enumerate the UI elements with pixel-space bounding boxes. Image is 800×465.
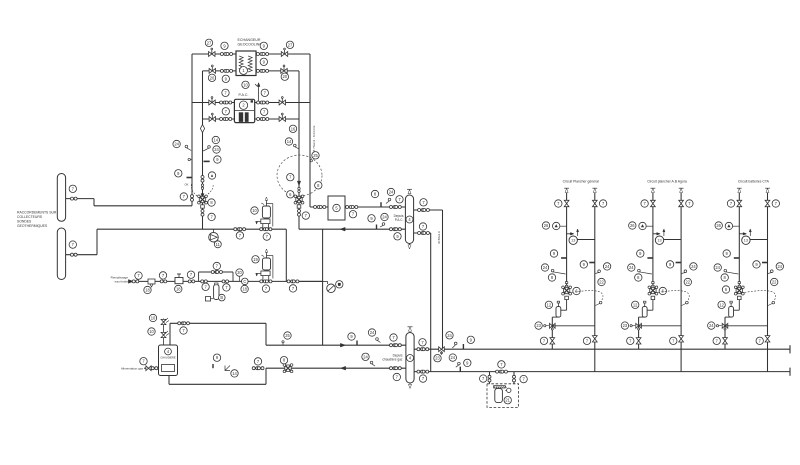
- wire bottle1 right supply: [414, 210, 443, 349]
- circuit 1 flanges 3way: [565, 282, 567, 287]
- label 20 bot right: [281, 73, 288, 80]
- three way valve right V2: [294, 195, 304, 204]
- circuit 2 supply pipe: [652, 193, 654, 288]
- label 18 filter: [144, 286, 151, 293]
- svg-text:22: 22: [772, 279, 777, 284]
- circuit 3 purger: [725, 222, 739, 229]
- label 19 lower vase: [252, 256, 259, 263]
- label 25 right riser: [310, 152, 319, 162]
- circuit 1 supply valve: [564, 200, 569, 206]
- valve outer riser: [191, 195, 194, 202]
- arrow into right 3way: [297, 181, 300, 192]
- bottle1 bottom arrow: [408, 244, 411, 249]
- circuit 1 purger: [553, 222, 567, 229]
- valve bypass top: [211, 271, 222, 274]
- vase upper manifold: [256, 219, 270, 229]
- stem valve PAC top right: [279, 97, 285, 105]
- union valve treatment main: [496, 370, 508, 373]
- circuit 2 return valve: [679, 200, 684, 206]
- circuit 3 label 12: [718, 301, 725, 308]
- label 24 pac supply: [386, 188, 395, 203]
- circuit 1 label 24 supply: [541, 264, 565, 274]
- svg-text:12: 12: [633, 302, 638, 307]
- circuit 1 label 7 supply: [555, 200, 562, 207]
- wire left inner riser x202: [202, 71, 204, 229]
- union valve fill 5: [222, 280, 229, 283]
- circuit 1 label 9 return: [580, 261, 587, 268]
- svg-text:24: 24: [447, 333, 452, 338]
- circuit 3 label 26: [715, 222, 722, 229]
- stem valve PAC bot left: [209, 113, 215, 121]
- circuit 3 balance valve: [722, 323, 728, 330]
- circuit 1 label 22: [598, 278, 605, 285]
- collector probe upper: [57, 174, 65, 222]
- svg-text:RACCORDEMENTS SUR: RACCORDEMENTS SUR: [17, 211, 57, 215]
- svg-text:24: 24: [778, 264, 783, 269]
- wire return main: [97, 229, 286, 281]
- circuit 2 label 12: [632, 301, 639, 308]
- air vent line: [255, 83, 260, 103]
- label 7 bottle2 supply: [390, 334, 397, 341]
- svg-text:23: 23: [435, 356, 440, 361]
- circuit 1 label 6: [573, 287, 580, 294]
- echangeur geocooling E1: [236, 51, 256, 76]
- vase lower bypass: [267, 256, 273, 279]
- circuit 1 supply arrow: [564, 188, 569, 192]
- svg-text:Circuit batteries CTA: Circuit batteries CTA: [738, 179, 770, 183]
- svg-text:CHAUDIERE: CHAUDIERE: [160, 355, 176, 359]
- label 7 right 3way: [287, 174, 294, 181]
- svg-text:Ø 80x2.9: Ø 80x2.9: [437, 231, 441, 244]
- vase upper: [261, 197, 270, 218]
- label 21 treatment: [504, 397, 511, 404]
- circuit 2 temp bar supply: [647, 257, 653, 259]
- circuit 3 label 9 supply: [723, 250, 730, 257]
- union valve fill 4: [201, 280, 208, 283]
- circuit 3 flanges 3way: [738, 282, 740, 287]
- label 10 upper vase: [251, 207, 258, 214]
- bottle2 top arrow: [408, 327, 413, 331]
- circuit 2 pump 13: [655, 229, 665, 244]
- label 9 bottle1 return: [394, 233, 401, 240]
- circuit 1 label 9 supply: [550, 250, 557, 257]
- svg-text:10: 10: [252, 208, 257, 213]
- balance valve upper main: [439, 347, 445, 354]
- circuit 3 label 6: [722, 286, 729, 293]
- safety valve 1: [149, 314, 169, 324]
- label 8 left 3way: [208, 199, 215, 206]
- label 8 right 3way: [315, 182, 322, 189]
- circuit 1 label 7 low return: [583, 337, 590, 344]
- circuit 2 crossover low: [639, 325, 682, 327]
- svg-text:10: 10: [149, 329, 154, 334]
- label 14 boiler return: [231, 370, 238, 377]
- svg-text:22: 22: [686, 279, 691, 284]
- label 7 bottle1 rs: [420, 199, 427, 206]
- circuit 1 pot 12: [556, 301, 561, 317]
- svg-text:26: 26: [716, 223, 721, 228]
- label 24 return pac: [380, 213, 388, 227]
- union valve bottle1 supply: [390, 206, 402, 209]
- circuit 3 label 22: [771, 278, 778, 285]
- stem valve HX bot left: [209, 65, 215, 73]
- vent label left riser: [208, 172, 215, 179]
- svg-text:GEOCOOLING: GEOCOOLING: [238, 43, 263, 47]
- vase lower: [261, 249, 270, 270]
- label 6 right 3way: [287, 191, 294, 198]
- svg-text:18: 18: [176, 286, 181, 291]
- svg-text:24: 24: [605, 264, 610, 269]
- circuit 1 three way valve: [562, 286, 572, 295]
- svg-text:19: 19: [253, 257, 258, 262]
- check valve boiler return: [225, 366, 230, 371]
- circuit 2 bottom vertical: [639, 317, 645, 349]
- circuit 3 temp bar supply: [734, 257, 740, 259]
- circuit 1 label 8: [548, 274, 555, 281]
- svg-text:ECHANGEUR: ECHANGEUR: [238, 38, 261, 42]
- wire treatment drops: [490, 372, 515, 384]
- circuit 3 return pipe: [767, 193, 769, 372]
- svg-text:20: 20: [283, 74, 288, 79]
- label 7 gas: [140, 358, 147, 365]
- circuit 2 flanges 3way: [652, 282, 654, 287]
- circuit 3 three way valve: [734, 286, 744, 295]
- circuit 2 pot 12: [642, 301, 647, 317]
- label 8 gauge: [336, 281, 343, 288]
- union valve bottle2 supply: [390, 344, 402, 347]
- circuit 2 crossover: [653, 233, 681, 240]
- union valves box5 right: [346, 206, 358, 209]
- circuit 1 title: [563, 179, 599, 183]
- svg-text:14: 14: [287, 139, 292, 144]
- union valve above 3way left: [201, 176, 204, 183]
- arrow boiler return: [341, 366, 346, 370]
- bottle2 bottom arrow: [408, 383, 411, 388]
- circuit 2 temp bar return: [676, 262, 682, 264]
- union valves PAC bot right: [257, 118, 269, 121]
- union valves HX bot right: [256, 69, 268, 72]
- circuit 1 return arrow: [592, 188, 597, 192]
- circuit 2 three way valve: [648, 286, 658, 295]
- label 24 lower main: [449, 354, 460, 367]
- label 7 below left 3way: [208, 213, 215, 220]
- label 9 lower main: [464, 359, 471, 366]
- svg-text:10: 10: [151, 315, 156, 320]
- union valve bottle1 return: [390, 228, 402, 231]
- label 24 boiler return: [362, 353, 375, 366]
- circuit 3 supply valve: [737, 200, 742, 206]
- label 7 treatment right: [520, 375, 527, 382]
- circuit 1 dashed control: [572, 291, 603, 306]
- circuit 2 label 23: [621, 322, 635, 329]
- circuit 2 label 8: [635, 274, 642, 281]
- svg-text:21: 21: [505, 398, 510, 403]
- union valve boiler return: [252, 367, 264, 370]
- wire HX top pipe: [192, 53, 310, 55]
- union below right 3way: [298, 210, 301, 217]
- label 7 bottle1 left: [396, 196, 403, 203]
- wire lower distribution main: [414, 368, 790, 376]
- valve lower collector: [71, 253, 78, 256]
- circuit 3 crossover: [739, 233, 767, 240]
- label 7 fill 5: [223, 284, 230, 291]
- svg-text:SONDES: SONDES: [17, 220, 32, 224]
- svg-text:14: 14: [214, 137, 219, 142]
- svg-text:24: 24: [389, 189, 394, 194]
- svg-text:Circuit plancher A.B Agora: Circuit plancher A.B Agora: [647, 179, 687, 183]
- circuit 1 drop pipe: [561, 300, 567, 311]
- union valve fill 3: [188, 280, 195, 283]
- label 16 right riser: [289, 125, 296, 132]
- circuit 3 label 7 supply: [727, 200, 734, 207]
- circuit 1 actuator: [565, 296, 569, 299]
- valve upper collector: [71, 197, 78, 200]
- circuit 2 label 24 return: [682, 263, 698, 274]
- circuit 3 dashed control: [744, 291, 775, 306]
- label 18 reducer: [175, 285, 182, 292]
- dashed link left 3way: [184, 183, 213, 196]
- svg-text:OK: OK: [184, 183, 188, 187]
- circuit 2 supply arrow: [651, 188, 656, 192]
- union valve bottle2 return: [390, 367, 402, 370]
- union valve upper main: [417, 348, 429, 351]
- stem valve HX top right: [281, 48, 287, 56]
- circuit 1 supply pipe: [566, 193, 568, 288]
- svg-text:18: 18: [242, 286, 247, 291]
- union valve lower main: [417, 370, 429, 373]
- label 7 fill 4: [202, 283, 209, 290]
- label 7 box5 right: [349, 211, 356, 218]
- label 9 boiler supply: [348, 333, 355, 340]
- label 24 left riser: [213, 146, 220, 153]
- circuit 1 label 26: [542, 222, 549, 229]
- pipe size text risers: [437, 231, 441, 244]
- circuit 1 return valve low: [592, 336, 597, 342]
- circuit 3 crossover low: [725, 325, 768, 327]
- label 9 HX top left: [221, 42, 228, 49]
- collector probe lower: [57, 228, 65, 280]
- label 23 upper main: [434, 351, 442, 362]
- svg-text:P.A.C.: P.A.C.: [395, 218, 404, 222]
- echangeur label: [238, 38, 263, 47]
- circuit 2 supply valve low: [636, 338, 641, 344]
- gauge fill end: [323, 281, 336, 292]
- circuit 3 supply valve low: [723, 338, 728, 344]
- union valves HX bot left: [220, 69, 232, 72]
- temp bar boiler return: [212, 364, 214, 368]
- svg-text:11: 11: [216, 242, 221, 247]
- label 24 outer riser: [173, 140, 191, 150]
- label 7 bypass: [213, 262, 220, 269]
- appareil 5: [328, 196, 345, 220]
- circuit 2 drop pipe: [647, 300, 653, 311]
- circuit 1 crossover low: [552, 325, 595, 327]
- wire right inner riser x299: [298, 71, 300, 229]
- svg-text:16: 16: [291, 126, 296, 131]
- svg-text:24: 24: [629, 265, 634, 270]
- wire right outer riser x310: [310, 54, 328, 207]
- circuit 2 dashed control: [658, 291, 689, 306]
- svg-text:10: 10: [243, 82, 248, 87]
- svg-text:24: 24: [363, 354, 368, 359]
- temp bar outer riser: [175, 170, 192, 178]
- circuit 2 label 6: [659, 287, 666, 294]
- circuit 3 actuator: [738, 296, 742, 299]
- union valves HX top right: [256, 53, 268, 56]
- wire PAC top pipe: [192, 102, 310, 104]
- label 7 PAC left: [222, 108, 229, 115]
- pressure reducer fill: [175, 274, 183, 284]
- circuit 1 return valve: [592, 200, 597, 206]
- svg-text:26: 26: [544, 223, 549, 228]
- temp bar lower main: [459, 367, 461, 372]
- circuit 3 label 24 return: [768, 263, 784, 274]
- circuit 2 label 7 low return: [670, 337, 677, 344]
- circuit 3 label 8: [721, 274, 728, 281]
- circuit 2 label 7 supply: [641, 200, 648, 207]
- gas supply: [121, 366, 159, 371]
- wire upper collector to network: [66, 199, 192, 206]
- temp bar pac supply: [380, 202, 382, 207]
- drain outer riser: [188, 158, 192, 160]
- svg-text:Ø 76x2.9 - 0.24 m/s: Ø 76x2.9 - 0.24 m/s: [312, 125, 316, 152]
- geothermal collector label: [17, 211, 57, 229]
- wire left outer riser x192: [191, 54, 193, 206]
- circuit 2 return arrow: [679, 188, 684, 192]
- union valve treatment right: [513, 375, 516, 382]
- circuit 3 label 7 low return: [756, 337, 763, 344]
- label 7 outer riser: [180, 193, 187, 200]
- circuit 3 title: [738, 179, 770, 183]
- label 24 boiler supply: [368, 329, 380, 343]
- circuit 3 bottom vertical: [725, 317, 731, 349]
- circuit 3 label 7 low supply: [713, 337, 720, 344]
- union valve treatment left: [488, 375, 491, 382]
- circuit 1 label 24 return: [595, 263, 611, 274]
- pump boiler return P8: [283, 364, 293, 373]
- circuit 3 label 9 return: [753, 261, 760, 268]
- circuit 3 label 7 return: [772, 200, 779, 207]
- circuit 3 pot 12: [729, 301, 734, 317]
- label B softener: [219, 294, 226, 301]
- label 20 bot left: [208, 74, 215, 81]
- label 9 HX mid right: [260, 58, 267, 65]
- label 7 lower collector: [69, 241, 76, 248]
- wire lower collector to return main: [66, 229, 97, 255]
- label 27 top left: [205, 39, 212, 46]
- label 7 upper main: [419, 339, 426, 346]
- separator bottle B1: [405, 195, 413, 244]
- softener cylinder: [206, 283, 220, 301]
- circuit 2 balance valve: [636, 323, 642, 330]
- vase lower manifold: [256, 271, 270, 281]
- circuit 1 return pipe: [594, 193, 596, 372]
- union valves PAC top right: [257, 101, 269, 104]
- svg-text:20: 20: [237, 270, 242, 275]
- circuit 2 label 7 return: [686, 200, 693, 207]
- arrow boiler supply: [340, 343, 345, 347]
- circuit 1 label 7 return: [599, 200, 606, 207]
- svg-text:24: 24: [691, 264, 696, 269]
- wire riser x322: [322, 229, 324, 345]
- label eau froide: [111, 276, 129, 284]
- svg-text:chaudière gaz: chaudière gaz: [382, 358, 402, 362]
- circuit 1 label 7 low supply: [540, 337, 547, 344]
- label 24 upper main: [446, 332, 457, 348]
- svg-text:14: 14: [232, 371, 237, 376]
- separator bottle B2: [406, 333, 414, 384]
- circuit 2 label 26: [629, 222, 636, 229]
- dashed control ellipse right: [277, 155, 322, 196]
- label C fill: [242, 278, 249, 285]
- temp bar upper main: [462, 344, 464, 349]
- actuator left 3way: [201, 205, 205, 208]
- chaudiere box B4: [159, 345, 178, 376]
- circuit 1 balance valve: [550, 323, 556, 330]
- label 27 top right: [286, 41, 293, 48]
- label 7 boiler return: [254, 358, 261, 365]
- svg-text:24: 24: [451, 355, 456, 360]
- bottle1 top arrow: [407, 189, 412, 193]
- stem valve HX top left: [209, 48, 215, 56]
- label 7 return main 1: [236, 232, 243, 239]
- circuit 1 bottom vertical: [552, 317, 558, 349]
- label 7 below right 3way: [302, 212, 309, 219]
- bypass loop fill: [199, 272, 233, 281]
- circuit 3 drop pipe: [734, 300, 740, 311]
- svg-text:24: 24: [174, 141, 179, 146]
- wire boiler supply: [170, 323, 406, 345]
- label 7 left interpipe: [222, 89, 229, 96]
- union valves PAC top left: [220, 101, 232, 104]
- circuit 3 supply pipe: [738, 193, 740, 288]
- svg-text:18: 18: [145, 287, 150, 292]
- label 7 boiler supply: [180, 327, 187, 334]
- svg-text:13: 13: [571, 239, 575, 243]
- svg-text:B: B: [220, 295, 223, 300]
- label 25 boiler sensor: [282, 332, 291, 345]
- temp bar left riser: [204, 156, 222, 163]
- pump P11: [209, 229, 219, 242]
- arrow filling: [128, 280, 133, 284]
- label depuis PAC: [394, 214, 404, 222]
- label 9 HX top right: [260, 42, 267, 49]
- label 9 boiler return: [213, 354, 220, 361]
- union valves vase upper: [260, 228, 272, 231]
- label 7 vase lower: [262, 285, 269, 292]
- svg-text:24: 24: [715, 265, 720, 270]
- circuit 3 supply arrow: [737, 188, 742, 192]
- svg-text:C: C: [243, 279, 246, 284]
- label 7 right interpipe: [261, 89, 268, 96]
- circuit 2 label 22: [684, 278, 691, 285]
- svg-text:24: 24: [709, 323, 714, 328]
- union below left 3way: [201, 210, 204, 217]
- circuit 2 label 9 return: [666, 261, 673, 268]
- circuit 3 label 24 supply: [714, 264, 738, 274]
- pipe size text right riser: [312, 125, 316, 152]
- arrow return pac: [340, 227, 345, 231]
- circuit 2 purger: [639, 222, 653, 229]
- union valve bottle1 rs: [418, 209, 430, 212]
- label 20 fill: [236, 269, 243, 282]
- wire return to bottle1: [299, 228, 406, 230]
- svg-text:Circuit Plancher général: Circuit Plancher général: [563, 179, 599, 183]
- svg-text:23: 23: [623, 323, 628, 328]
- label 8 boiler return: [280, 357, 287, 364]
- circuit 3 pump 13: [742, 229, 752, 244]
- label depuis chaudiere: [382, 354, 402, 362]
